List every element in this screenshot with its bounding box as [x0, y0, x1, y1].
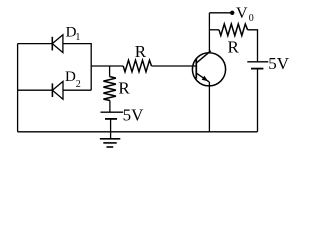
wire resistor to transistor base [152, 65, 197, 67]
svg-text:V: V [236, 5, 248, 22]
node Vo dot [230, 11, 234, 15]
wire D1 cathode lead to corner and down to bus [63, 44, 91, 91]
svg-text:D: D [65, 69, 76, 85]
wire D1 anode lead [18, 43, 53, 45]
wire D2 anode lead [18, 89, 53, 91]
diode D1 [52, 35, 63, 53]
transistor Q1 [192, 51, 225, 86]
svg-text:0: 0 [249, 13, 254, 24]
wire D2 cathode lead [63, 89, 91, 91]
wire output to Vo dot [209, 12, 232, 14]
svg-text:R: R [135, 42, 147, 61]
resistor R load (horizontal) [219, 24, 248, 36]
transistor emitter arrow [202, 76, 208, 81]
svg-text:R: R [228, 38, 240, 57]
wire base node to resistor [91, 65, 123, 67]
wire left input rail [17, 44, 19, 132]
wire collector vertical [208, 13, 210, 52]
diode D2 [52, 81, 63, 99]
resistor R pulldown (vertical) [103, 77, 116, 101]
svg-text:2: 2 [76, 79, 81, 90]
wire right battery negative to bottom rail [257, 69, 259, 132]
wire pulldown resistor to left battery [109, 101, 111, 113]
wire load resistor to right battery [248, 30, 258, 62]
wire left battery negative to rail and ground [110, 119, 112, 139]
battery 5V right [247, 62, 268, 69]
wire bottom rail [18, 131, 258, 133]
svg-text:1: 1 [75, 32, 80, 43]
svg-text:5V: 5V [123, 105, 145, 124]
resistor R base (horizontal) [123, 60, 151, 72]
svg-text:R: R [118, 78, 130, 97]
battery 5V left [101, 112, 124, 119]
wire pulldown resistor stub [109, 66, 111, 77]
ground [100, 139, 120, 147]
wire emitter vertical [208, 82, 210, 132]
wire collector branch to load resistor [209, 29, 219, 31]
svg-text:5V: 5V [268, 54, 290, 73]
